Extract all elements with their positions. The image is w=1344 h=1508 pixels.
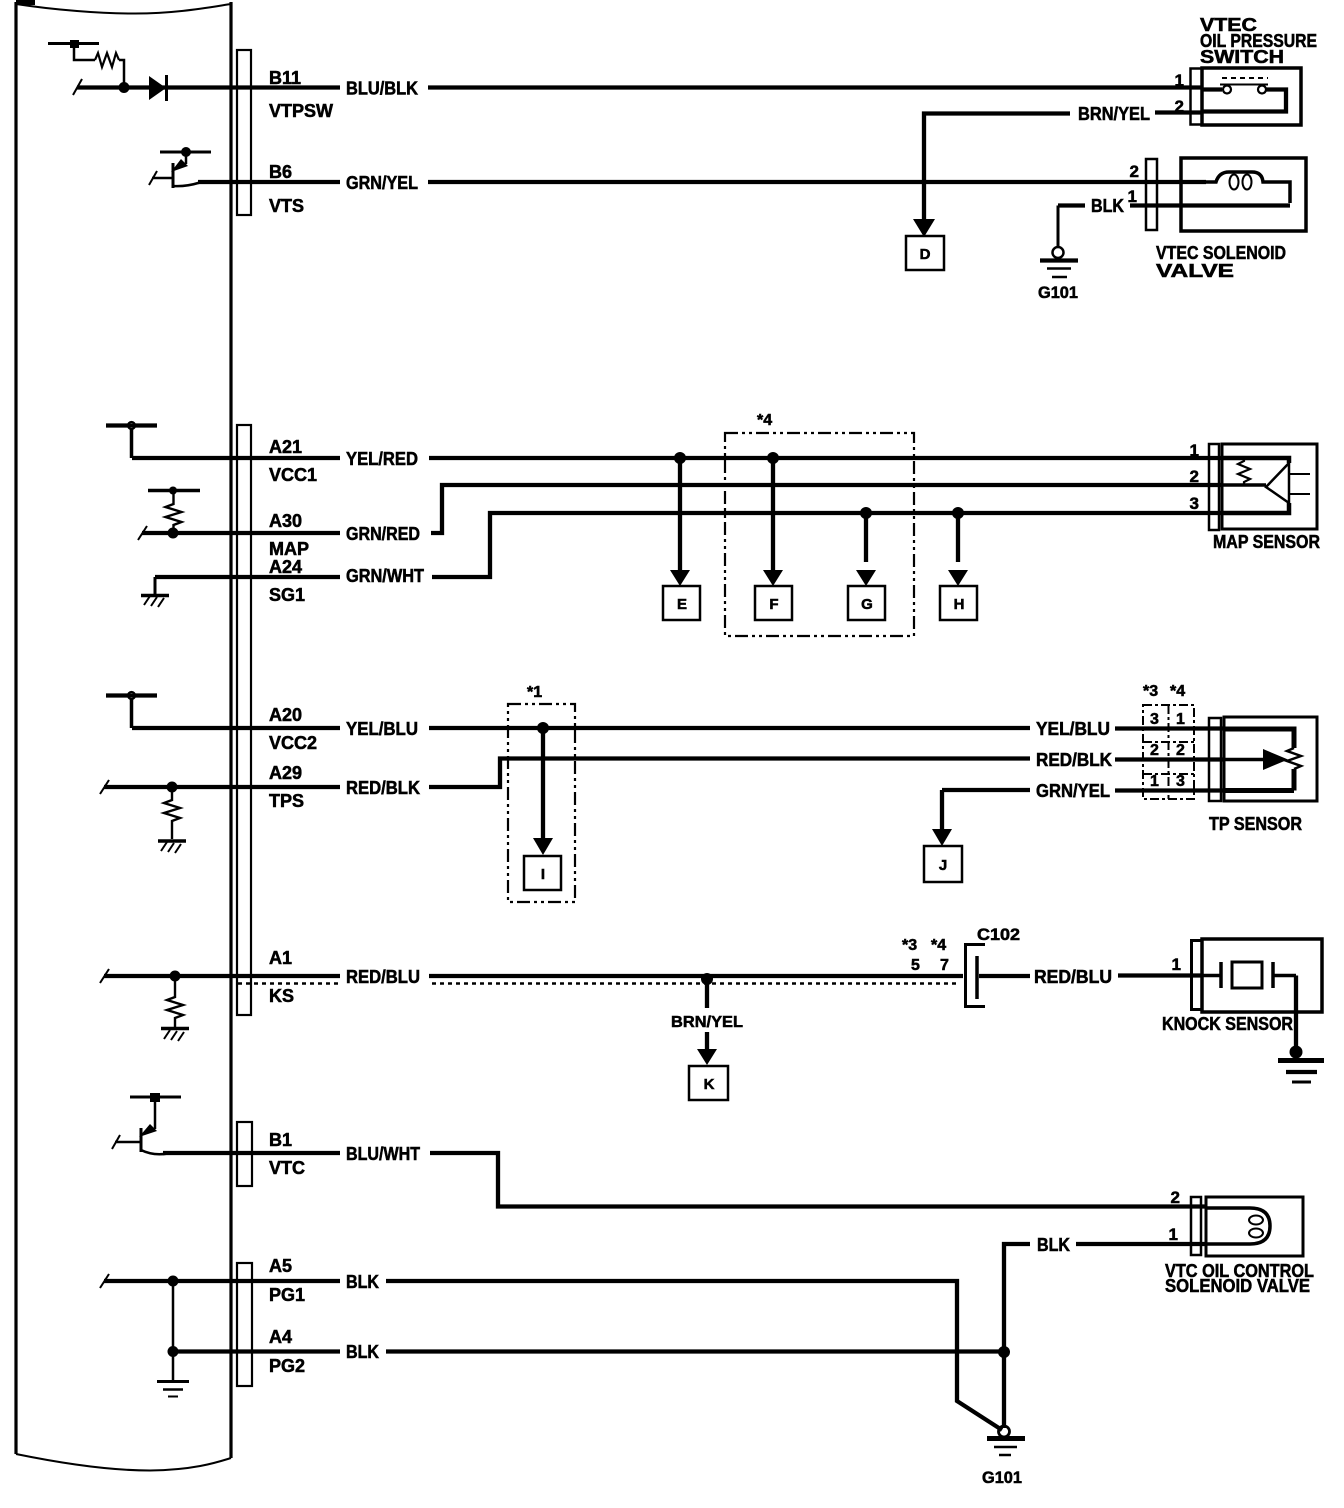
wire shield (dotted, knock sensor line) bbox=[238, 982, 956, 985]
svg-text:B11: B11 bbox=[269, 68, 301, 88]
connector F bbox=[755, 458, 792, 620]
connector H bbox=[940, 513, 977, 620]
node VCC1 (internal supply tap) bbox=[106, 422, 157, 458]
wire BLK (pin A4 to G101) bbox=[173, 1349, 1004, 1353]
node (junction on B11 wire) bbox=[119, 82, 130, 93]
svg-text:TPS: TPS bbox=[269, 791, 304, 811]
node (junction on A4 wire) bbox=[168, 1346, 179, 1357]
svg-text:VTS: VTS bbox=[269, 196, 304, 216]
pin 1 (oil pressure switch) bbox=[1175, 71, 1184, 90]
ground G101 (PG1/PG2/VTC valve) bbox=[982, 1426, 1025, 1487]
wire BLK (VTEC solenoid valve pin 1 to G101) bbox=[1058, 196, 1181, 247]
connector K bbox=[689, 1049, 728, 1100]
wire GRN/RED (pin A30 to MAP sensor pin 2) bbox=[138, 485, 1222, 540]
svg-text:*1: *1 bbox=[527, 684, 542, 701]
svg-text:J: J bbox=[939, 857, 947, 874]
dash-dot pin-variant grid *3/*4 (TP sensor) bbox=[1143, 683, 1194, 799]
svg-text:BRN/YEL: BRN/YEL bbox=[1078, 104, 1150, 124]
svg-text:1: 1 bbox=[1128, 187, 1137, 206]
svg-text:3: 3 bbox=[1176, 773, 1185, 790]
svg-text:A29: A29 bbox=[269, 763, 302, 783]
svg-text:3: 3 bbox=[1190, 494, 1199, 513]
svg-text:A1: A1 bbox=[269, 948, 292, 968]
svg-text:5: 5 bbox=[911, 957, 920, 974]
node (junction on A1 wire) bbox=[170, 971, 181, 982]
knock sensor label bbox=[1162, 1014, 1293, 1034]
svg-text:2: 2 bbox=[1130, 162, 1139, 181]
svg-text:KS: KS bbox=[269, 986, 294, 1006]
svg-text:BLU/BLK: BLU/BLK bbox=[346, 79, 418, 99]
svg-text:A4: A4 bbox=[269, 1327, 292, 1347]
svg-text:VTEC SOLENOID: VTEC SOLENOID bbox=[1156, 243, 1286, 263]
svg-text:BLK: BLK bbox=[1091, 196, 1124, 216]
pin A29 label bbox=[269, 763, 420, 811]
wire BLK (VTC solenoid valve pin 1 to G101) bbox=[1004, 1235, 1206, 1428]
node (junction E on YEL/RED) bbox=[674, 452, 686, 464]
svg-text:2: 2 bbox=[1175, 97, 1184, 116]
svg-text:7: 7 bbox=[940, 957, 949, 974]
svg-text:A30: A30 bbox=[269, 511, 302, 531]
wire label GRN/YEL (TP sensor side) bbox=[1036, 781, 1110, 801]
connector C102 bbox=[902, 925, 1020, 1007]
MAP sensor bbox=[1222, 444, 1317, 529]
svg-text:SOLENOID VALVE: SOLENOID VALVE bbox=[1165, 1276, 1310, 1296]
pin A4 label bbox=[269, 1327, 379, 1376]
svg-text:G101: G101 bbox=[1038, 283, 1078, 302]
VTEC solenoid valve label bbox=[1156, 243, 1286, 281]
VTEC solenoid valve bbox=[1181, 158, 1306, 231]
node (junction K on RED/BLU) bbox=[701, 973, 713, 985]
pin A1 label bbox=[269, 948, 420, 1006]
svg-text:2: 2 bbox=[1176, 742, 1185, 759]
svg-text:GRN/WHT: GRN/WHT bbox=[346, 566, 424, 586]
svg-text:GRN/RED: GRN/RED bbox=[346, 524, 420, 544]
pin 3 (MAP sensor) bbox=[1190, 494, 1199, 513]
svg-text:B1: B1 bbox=[269, 1130, 292, 1150]
pin numbers in grid: row 3 bbox=[1150, 773, 1185, 790]
svg-text:*4: *4 bbox=[1170, 683, 1185, 700]
svg-text:MAP: MAP bbox=[269, 539, 309, 559]
svg-text:SG1: SG1 bbox=[269, 585, 305, 605]
diode (VTPSW input) bbox=[149, 75, 167, 101]
svg-text:RED/BLU: RED/BLU bbox=[346, 967, 420, 987]
svg-text:*3: *3 bbox=[902, 937, 917, 954]
ground (knock sensor case) bbox=[1278, 1046, 1324, 1083]
svg-text:2: 2 bbox=[1171, 1188, 1180, 1207]
VTEC oil pressure switch bbox=[1191, 68, 1302, 125]
pin B11 label bbox=[269, 68, 418, 121]
connector J bbox=[924, 829, 962, 882]
node (junction on A29 wire) bbox=[167, 782, 178, 793]
svg-text:K: K bbox=[704, 1076, 715, 1093]
svg-text:YEL/RED: YEL/RED bbox=[346, 449, 418, 469]
transistor (ECM internal, VTS driver) bbox=[149, 147, 211, 188]
svg-text:C102: C102 bbox=[977, 925, 1020, 944]
transistor (ECM internal, VTC driver) bbox=[112, 1093, 181, 1154]
VTEC oil pressure switch label bbox=[1200, 15, 1317, 67]
knock sensor (piezo element) bbox=[1202, 939, 1322, 1046]
pin 1 (MAP sensor) bbox=[1190, 441, 1199, 460]
ECM connector bracket B11/B6 bbox=[237, 50, 251, 215]
node (junction H on GRN/WHT) bbox=[952, 507, 964, 519]
wire BRN/YEL (oil pressure switch pin 2 to connector D) bbox=[924, 104, 1202, 222]
ECM body (torn-edge boundary box) bbox=[16, 0, 231, 1471]
svg-text:1: 1 bbox=[1169, 1225, 1178, 1244]
node (junction F on YEL/RED) bbox=[767, 452, 779, 464]
svg-text:VTC: VTC bbox=[269, 1158, 305, 1178]
svg-text:1: 1 bbox=[1150, 773, 1159, 790]
resistor (ECM internal, knock sensor) bbox=[167, 976, 183, 1027]
wire label YEL/BLU (TP sensor side) bbox=[1036, 719, 1110, 739]
svg-text:2: 2 bbox=[1190, 467, 1199, 486]
svg-text:BLK: BLK bbox=[1037, 1235, 1070, 1255]
svg-text:2: 2 bbox=[1150, 742, 1159, 759]
svg-text:SWITCH: SWITCH bbox=[1200, 47, 1284, 67]
svg-text:H: H bbox=[954, 596, 965, 613]
svg-text:MAP SENSOR: MAP SENSOR bbox=[1213, 532, 1320, 552]
svg-text:VCC2: VCC2 bbox=[269, 733, 317, 753]
dash-dot option box *4 (MAP harness variant) bbox=[725, 412, 914, 636]
wire GRN/WHT (pin A24 to MAP sensor pin 3) bbox=[155, 513, 1222, 577]
svg-text:E: E bbox=[677, 596, 687, 613]
ECM connector bracket B1 bbox=[237, 1122, 252, 1186]
node (junction on A30 wire) bbox=[168, 528, 179, 539]
wire BLU/WHT (pin B1 to VTC oil control solenoid valve pin 2) bbox=[163, 1153, 1206, 1207]
svg-text:G101: G101 bbox=[982, 1468, 1022, 1487]
dash-dot option box *1 bbox=[508, 684, 575, 902]
wire RED/BLK (pin A29 to TP sensor) bbox=[100, 759, 1224, 795]
ground (ECM internal, TPS resistor) bbox=[158, 841, 186, 853]
svg-text:RED/BLK: RED/BLK bbox=[1036, 750, 1112, 770]
svg-text:GRN/YEL: GRN/YEL bbox=[346, 173, 418, 193]
pin A20 label bbox=[269, 705, 418, 753]
svg-text:I: I bbox=[541, 866, 545, 883]
svg-text:BLU/WHT: BLU/WHT bbox=[346, 1144, 420, 1164]
node (junction G on GRN/WHT) bbox=[860, 507, 872, 519]
svg-text:BLK: BLK bbox=[346, 1342, 379, 1362]
TP sensor connector bbox=[1209, 718, 1221, 801]
pin 1 (knock sensor) bbox=[1172, 955, 1181, 974]
VTC oil control solenoid valve (coil) bbox=[1206, 1197, 1303, 1256]
svg-text:YEL/BLU: YEL/BLU bbox=[346, 719, 418, 739]
resistor (ECM internal, MAP pull-up) bbox=[148, 487, 200, 534]
pin A24 label bbox=[269, 557, 424, 605]
svg-text:*4: *4 bbox=[757, 412, 772, 429]
wire BLU/BLK (pin B11 to VTEC oil pressure switch pin 1) bbox=[73, 79, 1202, 95]
wire RED/BLU (pin A1 to C102) bbox=[100, 969, 963, 983]
svg-text:VCC1: VCC1 bbox=[269, 465, 317, 485]
wire (ECM internal ground link) bbox=[172, 1281, 175, 1380]
pin 2 (oil pressure switch) bbox=[1175, 97, 1184, 116]
wire BRN/YEL (to connector K) bbox=[671, 979, 743, 1051]
svg-text:RED/BLK: RED/BLK bbox=[346, 778, 420, 798]
svg-text:A24: A24 bbox=[269, 557, 302, 577]
svg-text:A21: A21 bbox=[269, 437, 302, 457]
svg-text:TP SENSOR: TP SENSOR bbox=[1209, 814, 1302, 834]
pin 2 (MAP sensor) bbox=[1190, 467, 1199, 486]
svg-text:F: F bbox=[769, 596, 778, 613]
svg-text:*4: *4 bbox=[931, 937, 946, 954]
pin 2 (VTEC solenoid valve) bbox=[1130, 162, 1139, 181]
wire label RED/BLK (TP sensor side) bbox=[1036, 750, 1112, 770]
pin A21 label bbox=[269, 437, 418, 485]
svg-text:GRN/YEL: GRN/YEL bbox=[1036, 781, 1110, 801]
resistor (ECM internal, TPS) bbox=[164, 787, 180, 839]
svg-text:BRN/YEL: BRN/YEL bbox=[671, 1014, 743, 1031]
svg-text:A5: A5 bbox=[269, 1256, 292, 1276]
MAP sensor label bbox=[1213, 532, 1320, 552]
VTC oil control solenoid valve label bbox=[1165, 1261, 1314, 1296]
ECM connector bracket A5/A4 bbox=[237, 1263, 252, 1386]
svg-text:RED/BLU: RED/BLU bbox=[1034, 967, 1112, 987]
TP sensor label bbox=[1209, 814, 1302, 834]
svg-text:BLK: BLK bbox=[346, 1272, 379, 1292]
node (junction on A5 wire) bbox=[168, 1276, 179, 1287]
pin B1 label bbox=[269, 1130, 420, 1178]
wire YEL/BLU (pin A20 to TP sensor) bbox=[132, 726, 1224, 731]
ECM connector bracket A21..KS bbox=[237, 425, 251, 1015]
svg-text:B6: B6 bbox=[269, 162, 292, 182]
ground G101 (VTEC solenoid valve) bbox=[1038, 247, 1078, 302]
knock sensor connector bbox=[1192, 941, 1204, 1010]
connector G bbox=[848, 513, 885, 620]
wire GRN/YEL (pin B6 to VTEC solenoid valve pin 2) bbox=[198, 180, 1206, 184]
node (junction BLK wires at G101 riser) bbox=[998, 1346, 1010, 1358]
svg-text:G: G bbox=[861, 596, 873, 613]
svg-text:1: 1 bbox=[1175, 71, 1184, 90]
svg-text:1: 1 bbox=[1190, 441, 1199, 460]
svg-text:VTPSW: VTPSW bbox=[269, 101, 333, 121]
MAP sensor connector bbox=[1209, 444, 1219, 530]
pin numbers in grid: row 1 bbox=[1150, 711, 1185, 728]
pin 1 (VTC solenoid valve) bbox=[1169, 1225, 1178, 1244]
pin 2 (VTC solenoid valve) bbox=[1171, 1188, 1180, 1207]
pin A5 label bbox=[269, 1256, 379, 1305]
connector I bbox=[524, 728, 561, 890]
svg-text:1: 1 bbox=[1172, 955, 1181, 974]
TP sensor (potentiometer) bbox=[1224, 717, 1317, 801]
pin B6 label bbox=[269, 162, 418, 216]
connector D bbox=[906, 219, 944, 270]
svg-text:KNOCK SENSOR: KNOCK SENSOR bbox=[1162, 1014, 1293, 1034]
node (junction I on YEL/BLU) bbox=[537, 722, 549, 734]
svg-text:A20: A20 bbox=[269, 705, 302, 725]
pin A30 label bbox=[269, 511, 420, 559]
svg-text:PG2: PG2 bbox=[269, 1356, 305, 1376]
ground (ECM internal, knock resistor) bbox=[161, 1029, 189, 1042]
connector E bbox=[663, 458, 700, 620]
wire RED/BLU (C102 to knock sensor pin 1) bbox=[979, 967, 1202, 987]
VTEC solenoid valve connector bbox=[1146, 159, 1157, 230]
ground SG1 (ECM internal) bbox=[141, 577, 169, 607]
svg-text:3: 3 bbox=[1150, 711, 1159, 728]
svg-text:YEL/BLU: YEL/BLU bbox=[1036, 719, 1110, 739]
svg-text:PG1: PG1 bbox=[269, 1285, 305, 1305]
svg-text:1: 1 bbox=[1176, 711, 1185, 728]
svg-text:*3: *3 bbox=[1143, 683, 1158, 700]
svg-text:D: D bbox=[920, 246, 931, 263]
pin 1 (VTEC solenoid valve) bbox=[1128, 187, 1137, 206]
wire BLK (pin A5 to G101) bbox=[100, 1274, 1002, 1430]
VTC oil control solenoid valve connector bbox=[1191, 1197, 1201, 1255]
svg-text:VALVE: VALVE bbox=[1156, 261, 1234, 281]
ground (ECM internal, PG1/PG2) bbox=[157, 1382, 189, 1397]
pin numbers in grid: row 2 bbox=[1150, 742, 1185, 759]
wire YEL/RED (pin A21 to MAP sensor pin 1) bbox=[132, 456, 1222, 460]
wire GRN/YEL (TP sensor to connector J) bbox=[942, 790, 1224, 831]
resistor (ECM internal, VTPSW circuit) bbox=[48, 40, 124, 83]
node VCC2 (internal supply tap) bbox=[106, 692, 157, 728]
